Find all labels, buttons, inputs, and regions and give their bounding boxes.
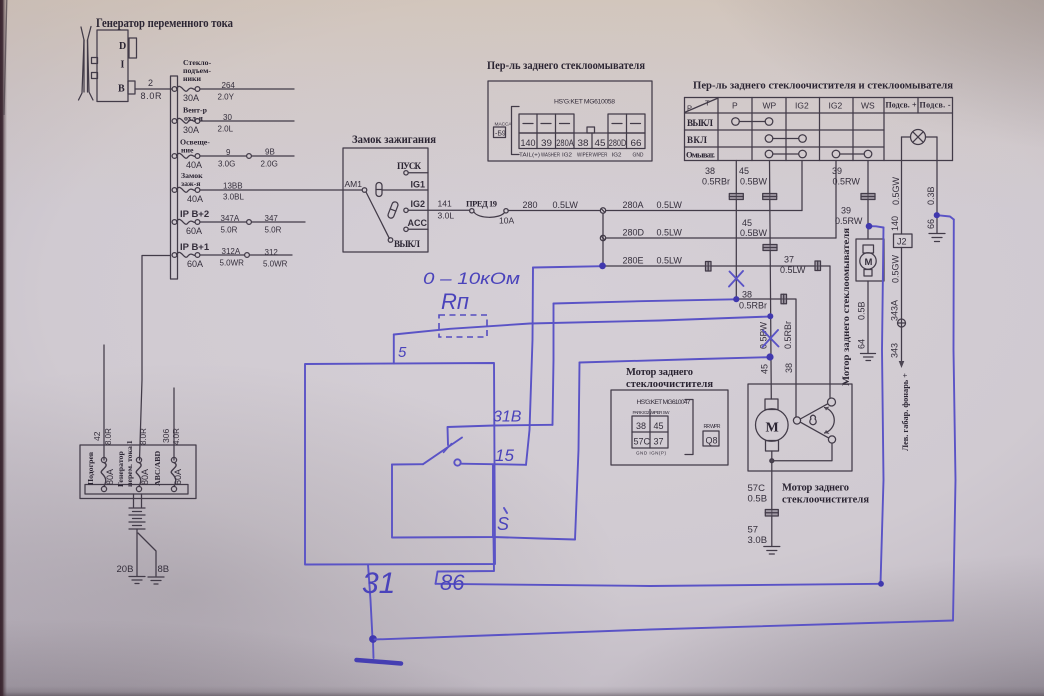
wire 13BB 3.0BL to ignition switch xyxy=(200,182,362,202)
ignition switch movable contact capsule xyxy=(376,183,382,197)
svg-text:86: 86 xyxy=(440,570,465,595)
wiper motor internal junction xyxy=(770,443,832,471)
connector on wire 57C xyxy=(765,510,778,517)
connector on wire 38 xyxy=(729,194,743,200)
svg-text:264: 264 xyxy=(222,81,236,90)
blue junction dot 86 xyxy=(878,581,884,587)
fuse PRED 19 10A xyxy=(466,199,514,226)
svg-text:3.0G: 3.0G xyxy=(218,160,235,169)
svg-text:Подсв. +: Подсв. + xyxy=(886,101,917,110)
svg-text:IP B+2: IP B+2 xyxy=(180,209,209,220)
fuse bus bar xyxy=(171,76,178,279)
wire 2 8.0R generator B to fuse bus xyxy=(135,78,172,101)
wire 30 2.0L xyxy=(200,113,294,134)
pin table labels xyxy=(633,410,671,456)
svg-text:Генератор: Генератор xyxy=(116,451,125,487)
svg-text:66: 66 xyxy=(631,138,642,149)
ignition switch lever xyxy=(366,192,389,238)
wire bus to battery fuse (down-branch) xyxy=(140,256,171,461)
blue wire pin 5 through Rp to wire 45 xyxy=(394,317,770,364)
wire 343 with arrow to tail lamp xyxy=(890,327,911,451)
svg-text:2: 2 xyxy=(148,78,153,88)
relay (hand-drawn) outer box xyxy=(305,363,495,565)
svg-text:140: 140 xyxy=(890,216,900,231)
bracket xyxy=(685,400,693,455)
svg-text:39: 39 xyxy=(832,166,842,176)
svg-text:39: 39 xyxy=(541,138,552,149)
svg-text:8.0R: 8.0R xyxy=(141,91,163,101)
svg-text:0.3B: 0.3B xyxy=(926,186,936,205)
svg-text:57C: 57C xyxy=(634,437,651,447)
wire 38 0.5RBr vertical xyxy=(702,161,736,300)
wire 66 0.3B vertical xyxy=(926,137,937,233)
svg-text:280: 280 xyxy=(523,200,538,210)
connector upper cells left xyxy=(519,114,574,133)
svg-text:ABC/ABD: ABC/ABD xyxy=(153,451,162,486)
svg-text:PARK IG2 WIPER SW: PARK IG2 WIPER SW xyxy=(633,410,671,415)
svg-text:347: 347 xyxy=(265,214,279,223)
svg-text:0.5B: 0.5B xyxy=(857,301,867,320)
wiper cam blob xyxy=(810,415,816,424)
svg-text:Пер-ль заднего стеклоочистител: Пер-ль заднего стеклоочистителя и стекло… xyxy=(693,81,953,92)
svg-text:280D: 280D xyxy=(609,138,627,149)
svg-text:10A: 10A xyxy=(499,216,514,226)
svg-text:0.5LW: 0.5LW xyxy=(657,256,683,266)
blue wire pin 31 to ground xyxy=(368,565,374,659)
svg-text:Подсв. -: Подсв. - xyxy=(920,101,951,110)
svg-text:5.0WR: 5.0WR xyxy=(220,259,245,268)
svg-text:8.0R: 8.0R xyxy=(139,428,148,445)
svg-text:45: 45 xyxy=(739,166,749,176)
svg-text:M: M xyxy=(766,421,779,436)
svg-text:37: 37 xyxy=(654,437,664,447)
svg-text:280A: 280A xyxy=(556,138,574,149)
svg-text:ПУСК: ПУСК xyxy=(397,161,421,171)
blue ground junction dot xyxy=(369,635,377,643)
svg-text:57C: 57C xyxy=(748,483,766,494)
svg-text:8B: 8B xyxy=(158,564,170,575)
svg-text:ние: ние xyxy=(181,146,194,155)
svg-text:312A: 312A xyxy=(222,247,241,256)
blue tap dot on wire 66 xyxy=(934,212,940,218)
wire branch vertical 280 xyxy=(602,213,604,266)
svg-text:31: 31 xyxy=(362,567,395,600)
svg-text:140: 140 xyxy=(521,138,536,149)
connector upper cells right xyxy=(608,114,645,133)
svg-text:38: 38 xyxy=(578,138,589,149)
svg-text:-Б9: -Б9 xyxy=(495,131,506,138)
svg-text:ACC: ACC xyxy=(408,218,428,228)
wire 0.5GW 343A below J2 xyxy=(890,248,902,322)
wire 42 heater feed xyxy=(103,345,105,460)
svg-text:0.5RW: 0.5RW xyxy=(835,216,863,226)
svg-text:WIPER: WIPER xyxy=(593,153,608,159)
blue X cut mark on wire 45 xyxy=(763,330,779,347)
svg-text:38: 38 xyxy=(636,421,646,431)
svg-text:3.0B: 3.0B xyxy=(748,535,768,546)
svg-text:HS’G:KET MG610047: HS’G:KET MG610047 xyxy=(637,399,691,406)
ignition switch contact AM1 xyxy=(345,179,367,192)
blue wire ground to wire 66 xyxy=(375,215,956,639)
generator G1 body xyxy=(97,30,137,102)
svg-text:0.5LW: 0.5LW xyxy=(553,200,579,210)
svg-text:WP: WP xyxy=(763,101,777,111)
svg-text:I: I xyxy=(121,60,125,71)
svg-text:GND: GND xyxy=(633,153,644,159)
svg-text:45: 45 xyxy=(595,138,606,149)
svg-text:66: 66 xyxy=(926,219,936,229)
svg-text:141: 141 xyxy=(438,199,452,209)
svg-text:5.0WR: 5.0WR xyxy=(263,260,288,269)
svg-text:Подогрев: Подогрев xyxy=(86,452,95,485)
svg-text:45: 45 xyxy=(742,218,752,228)
svg-text:3.0BL: 3.0BL xyxy=(223,193,244,202)
connector on wire 45 lower xyxy=(763,245,777,251)
svg-text:38: 38 xyxy=(705,166,715,176)
svg-text:0.5BW: 0.5BW xyxy=(740,228,768,238)
connector on wire 37 xyxy=(815,261,821,271)
svg-text:80A: 80A xyxy=(140,469,150,485)
svg-text:0.5GW: 0.5GW xyxy=(891,176,901,205)
svg-text:0.5RBr: 0.5RBr xyxy=(783,321,793,349)
svg-text:343A: 343A xyxy=(890,300,900,321)
svg-text:ники: ники xyxy=(183,74,201,83)
blue tap dot on wire 38 xyxy=(733,296,739,302)
svg-text:IG2: IG2 xyxy=(411,199,426,209)
table header pins xyxy=(732,101,951,111)
wire 38 corner to motor (0.5RBr) xyxy=(736,290,796,418)
rear wiper motor M1 box xyxy=(748,384,852,471)
potentiometer Rp dashed box xyxy=(439,315,487,337)
fuse F6 60A IP B+1 xyxy=(172,252,203,269)
ground for wire 66 xyxy=(929,234,945,242)
svg-text:T: T xyxy=(705,99,710,108)
svg-text:IP B+1: IP B+1 xyxy=(180,242,210,253)
svg-text:40A: 40A xyxy=(187,194,203,204)
node junction 280/280A xyxy=(600,208,605,213)
svg-text:280E: 280E xyxy=(623,256,644,266)
wire battery to ground 8B xyxy=(138,533,156,576)
wire 312A 5.0WR / connector / wire 312 5.0WR xyxy=(200,247,292,269)
wire 306 ABS feed xyxy=(173,388,175,460)
washer motor M2 box xyxy=(856,239,884,281)
wiper cam switch contacts xyxy=(793,398,835,443)
svg-text:2.0Y: 2.0Y xyxy=(218,93,235,102)
svg-text:5.0R: 5.0R xyxy=(265,226,282,235)
svg-text:IG2: IG2 xyxy=(829,101,843,111)
blue wire S to wire 45 lower xyxy=(493,357,769,539)
wiper motor pin table xyxy=(632,410,668,449)
svg-text:30: 30 xyxy=(223,113,232,122)
battery fuse box xyxy=(80,445,196,499)
wire 141 3.0L xyxy=(428,199,470,221)
wire 57 3.0B xyxy=(748,525,768,547)
fuse F5 60A IP B+2 xyxy=(172,219,202,236)
node junction 280D xyxy=(600,235,605,240)
fuse F8 80A generator (Generator perem. toka 1 8.0R) xyxy=(136,457,141,491)
ignition switch contact PUSK xyxy=(397,161,428,175)
svg-text:80A: 80A xyxy=(105,469,115,485)
svg-text:40A: 40A xyxy=(186,160,202,170)
connector on wire 38 horizontal xyxy=(781,294,787,304)
wiper motor M1 xyxy=(756,399,789,451)
RR WPR Q8 designator xyxy=(703,424,721,446)
blue tap dot on wire 39 xyxy=(866,223,873,230)
wiper cam arc xyxy=(825,407,835,435)
ground for wire 57 xyxy=(764,547,780,555)
svg-text:IG2: IG2 xyxy=(795,101,809,111)
blue tap dot on wire 45 upper xyxy=(767,313,773,319)
svg-text:280A: 280A xyxy=(623,200,644,210)
wire 39 0.5RW vertical xyxy=(832,161,868,240)
svg-text:IG2: IG2 xyxy=(612,153,622,159)
ignition switch contact VYKL xyxy=(388,238,420,249)
wiper motor connector label box xyxy=(611,390,728,465)
wire 9 3.0G / connector / wire 9B 2.0G xyxy=(200,148,294,169)
wire 280E 0.5LW / wire 37 0.5LW horizontal xyxy=(603,255,830,399)
switch table grid xyxy=(685,98,953,161)
ignition switch contact IG1 xyxy=(382,180,428,191)
wire 264 2.0Y xyxy=(200,81,294,102)
connector J2 xyxy=(894,234,913,248)
svg-text:WASHER: WASHER xyxy=(541,153,560,159)
svg-text:5: 5 xyxy=(398,344,407,361)
wire 347A 5.0R / connector / wire 347 5.0R xyxy=(200,214,305,235)
svg-text:J2: J2 xyxy=(897,237,907,247)
svg-text:0.5RBr: 0.5RBr xyxy=(702,177,730,187)
svg-text:0.5BW: 0.5BW xyxy=(740,177,768,187)
table row VYKL contacts P-WP xyxy=(687,118,773,128)
svg-text:39: 39 xyxy=(841,206,851,216)
svg-text:0.5RW: 0.5RW xyxy=(833,177,861,187)
svg-text:38: 38 xyxy=(784,363,794,373)
svg-text:30A: 30A xyxy=(183,93,199,103)
svg-text:312: 312 xyxy=(265,248,279,257)
svg-text:Пер-ль заднего стеклоомывателя: Пер-ль заднего стеклоомывателя xyxy=(487,58,645,72)
svg-text:60A: 60A xyxy=(173,469,183,485)
svg-text:ВЫКЛ: ВЫКЛ xyxy=(687,118,713,128)
svg-text:Q8: Q8 xyxy=(706,436,718,446)
svg-text:Мотор заднего стеклоомывателя: Мотор заднего стеклоомывателя xyxy=(841,228,851,386)
svg-text:20B: 20B xyxy=(117,564,134,575)
fuse F7 80A heater (Podogrev 42 8.0R) xyxy=(101,457,106,491)
svg-text:ВЫКЛ: ВЫКЛ xyxy=(394,239,420,249)
generator G1 pulley xyxy=(79,27,98,101)
blue wire pin 31B to wire 38 xyxy=(448,299,736,445)
svg-text:30A: 30A xyxy=(183,125,199,135)
wiper motor caption right xyxy=(782,483,869,506)
paper edge line top-left xyxy=(4,0,7,115)
svg-text:RR WPR: RR WPR xyxy=(704,424,721,430)
svg-text:45: 45 xyxy=(760,364,770,374)
ignition switch contact IG2 xyxy=(404,199,428,213)
connector pin numbers 140 39 280A 38 45 280D 66 xyxy=(521,138,642,149)
ground 20B xyxy=(117,564,146,584)
svg-text:Мотор заднего: Мотор заднего xyxy=(782,483,849,494)
svg-text:стеклоочистителя: стеклоочистителя xyxy=(626,379,713,390)
svg-text:0 – 10кОм: 0 – 10кОм xyxy=(423,269,520,288)
table row VKL contacts WP-IG2 xyxy=(687,135,806,145)
fuse F1 30A window lifters xyxy=(172,86,200,103)
svg-text:стеклоочистителя: стеклоочистителя xyxy=(782,495,869,506)
svg-text:60A: 60A xyxy=(186,226,202,236)
svg-text:P: P xyxy=(687,104,692,113)
svg-text:37: 37 xyxy=(784,255,794,265)
wire 280D 0.5LW xyxy=(606,161,836,239)
svg-text:31B: 31B xyxy=(493,409,522,426)
svg-text:ПРЕД 19: ПРЕД 19 xyxy=(466,199,497,209)
svg-text:GND IGN(P): GND IGN(P) xyxy=(636,451,666,456)
svg-text:0.5LW: 0.5LW xyxy=(657,228,683,238)
svg-text:WIPER: WIPER xyxy=(577,153,592,159)
wire 280 0.5LW xyxy=(508,200,600,211)
svg-text:0.5GW: 0.5GW xyxy=(891,254,901,283)
washer motor M2 xyxy=(860,245,876,276)
battery GB1 xyxy=(129,494,145,529)
fuse F4 40A ignition lock xyxy=(172,187,203,204)
svg-text:45: 45 xyxy=(654,421,664,431)
svg-text:P: P xyxy=(732,101,738,111)
svg-text:0.5RBr: 0.5RBr xyxy=(739,301,767,311)
svg-text:8.0R: 8.0R xyxy=(104,428,113,445)
svg-text:Мотор заднего: Мотор заднего xyxy=(626,367,693,378)
svg-text:Генератор переменного тока: Генератор переменного тока xyxy=(96,15,233,30)
svg-text:B: B xyxy=(118,84,125,95)
svg-text:60A: 60A xyxy=(187,259,203,269)
wire 57C 0.5B xyxy=(748,471,772,546)
fuse F9 60A ABC/ABD (306 4.0R) xyxy=(171,457,176,491)
svg-text:Омыват.: Омыват. xyxy=(686,150,715,160)
connector pin row xyxy=(519,133,645,149)
svg-text:Лев. габар. фонарь +: Лев. габар. фонарь + xyxy=(901,373,910,451)
svg-text:15: 15 xyxy=(495,446,514,465)
svg-text:IG1: IG1 xyxy=(411,180,426,190)
svg-text:5.0R: 5.0R xyxy=(221,226,238,235)
ignition switch contact ACC xyxy=(404,218,428,232)
relay switch contact xyxy=(454,459,460,465)
blue wire pin 15 to 280E xyxy=(461,266,602,465)
svg-text:AM1: AM1 xyxy=(345,179,363,189)
connector on wire 39 xyxy=(861,194,875,200)
relay switch lever xyxy=(423,438,462,465)
svg-text:0.5LW: 0.5LW xyxy=(657,200,683,210)
wiper motor caption above label box xyxy=(626,367,713,390)
svg-text:заж-я: заж-я xyxy=(181,179,201,188)
svg-text:HS’G:KET MG610058: HS’G:KET MG610058 xyxy=(554,99,615,106)
svg-text:S: S xyxy=(497,514,509,534)
svg-text:0.5B: 0.5B xyxy=(748,494,768,505)
svg-text:Rп: Rп xyxy=(441,289,469,314)
svg-text:TAIL(+): TAIL(+) xyxy=(519,153,540,159)
illumination lamp xyxy=(902,130,938,145)
svg-text:4.0R: 4.0R xyxy=(172,428,181,445)
svg-text:57: 57 xyxy=(748,525,759,536)
fuse F2 30A cooling fan xyxy=(172,118,200,135)
wire battery to ground 20B xyxy=(136,529,138,576)
blue tap dot on 280E xyxy=(599,263,606,270)
svg-text:0.5LW: 0.5LW xyxy=(780,265,806,275)
ground for wire 64 xyxy=(861,354,876,361)
label S (handwritten) xyxy=(497,508,509,534)
blue X cut mark on wire 38 xyxy=(729,271,744,287)
svg-text:280D: 280D xyxy=(623,228,645,238)
wire 64 0.5B washer motor to ground xyxy=(857,281,869,353)
blue ground bar xyxy=(357,660,402,664)
svg-text:2.0G: 2.0G xyxy=(261,160,278,169)
blue wire pin 86 to wire 39 xyxy=(436,226,884,586)
wire 280A 0.5LW xyxy=(606,161,802,211)
svg-text:D: D xyxy=(119,41,126,52)
blue tap dot on wire 45 lower xyxy=(766,353,773,360)
svg-text:M: M xyxy=(865,257,873,268)
MASSA tab xyxy=(494,122,513,138)
svg-text:ВКЛ: ВКЛ xyxy=(687,135,707,145)
svg-text:2.0L: 2.0L xyxy=(218,125,234,134)
svg-text:3.0L: 3.0L xyxy=(438,211,455,221)
connector junction on wire 343 xyxy=(898,319,906,327)
rear washer switch connector block box xyxy=(488,81,652,161)
svg-text:9B: 9B xyxy=(265,148,275,157)
svg-text:42: 42 xyxy=(92,431,102,441)
svg-text:347A: 347A xyxy=(221,214,240,223)
connector bracket xyxy=(512,107,520,155)
fuse F3 40A lighting xyxy=(172,153,202,170)
connector pin functions xyxy=(519,153,644,159)
connector on wire 45 upper xyxy=(763,194,777,200)
svg-text:IG2: IG2 xyxy=(562,153,572,159)
svg-text:38: 38 xyxy=(742,290,752,300)
svg-text:перем. тока 1: перем. тока 1 xyxy=(125,440,134,487)
ignition switch second capsule xyxy=(387,201,399,219)
table header diagonal P/T xyxy=(686,99,718,113)
svg-text:64: 64 xyxy=(857,339,867,349)
wire 45 0.5BW vertical xyxy=(739,161,771,400)
table row Omyvat contacts WP-IG2 and IG2-WS xyxy=(686,150,872,160)
svg-text:306: 306 xyxy=(161,429,171,443)
svg-text:13BB: 13BB xyxy=(223,182,243,191)
svg-text:343: 343 xyxy=(890,343,900,358)
svg-text:9: 9 xyxy=(226,148,231,157)
ground 8B xyxy=(148,564,169,584)
svg-text:WS: WS xyxy=(861,101,875,111)
wire 140 0.5GW vertical xyxy=(890,137,902,234)
relay inner coil box xyxy=(392,464,493,537)
ignition switch S1 box xyxy=(343,148,428,252)
connector key notch xyxy=(587,127,595,133)
svg-text:Замок зажигания: Замок зажигания xyxy=(352,134,436,146)
connector on wire 280E xyxy=(706,262,712,272)
